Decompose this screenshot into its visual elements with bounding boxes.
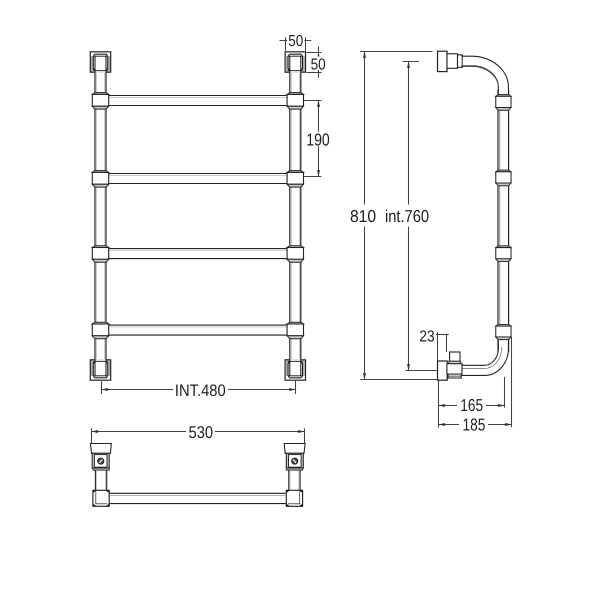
svg-text:165: 165 — [460, 395, 483, 415]
dimension 530 — [92, 423, 305, 444]
dimension 50 vertical (right of top-right bracket) — [307, 47, 328, 78]
collar left bar1 — [92, 93, 108, 110]
collar left bar4 — [92, 322, 108, 339]
side view vertical tube — [498, 90, 509, 352]
right post — [290, 54, 301, 375]
top-left wall bracket — [90, 52, 110, 73]
air valve cap — [450, 352, 460, 361]
svg-text:810: 810 — [350, 206, 376, 226]
dimension 165 — [439, 377, 505, 428]
svg-text:50: 50 — [311, 57, 326, 74]
svg-text:190: 190 — [306, 129, 330, 149]
top-right wall bracket — [285, 52, 305, 73]
svg-text:INT.480: INT.480 — [175, 381, 226, 400]
side view top wall plate — [438, 51, 448, 71]
plan view front tube — [109, 493, 286, 503]
bar 4 — [108, 325, 288, 335]
svg-text:185: 185 — [463, 415, 486, 435]
boss lower band — [448, 374, 461, 378]
left post — [95, 54, 106, 375]
collar right bar1 — [287, 93, 303, 110]
dimension INT.480 — [102, 381, 296, 400]
collar left bar2 — [92, 171, 108, 188]
bar 1 — [107, 96, 288, 106]
bar 2 — [108, 174, 288, 184]
wall plate — [90, 444, 111, 454]
dimension int.760 — [384, 62, 439, 371]
side collar 2 — [496, 170, 511, 186]
bottom wall plate — [438, 361, 448, 380]
dimension 190 — [304, 101, 332, 177]
dimension 50 horizontal (top) — [280, 33, 312, 51]
collar right bar2 — [287, 171, 303, 188]
side view top boss — [447, 54, 458, 69]
plan view left bracket assembly — [90, 444, 111, 507]
side collar 4 — [496, 324, 511, 339]
flange — [93, 468, 109, 470]
dimension 23 — [419, 329, 448, 362]
dimension 810 — [349, 52, 439, 380]
svg-text:23: 23 — [419, 329, 434, 346]
post (toward viewer) — [94, 470, 96, 490]
collar left bar3 — [92, 246, 108, 263]
bracket body — [92, 453, 109, 468]
svg-text:50: 50 — [288, 33, 303, 50]
collar right bar3 — [287, 246, 303, 263]
side collar 1 — [496, 95, 511, 111]
side collar 3 — [496, 246, 511, 262]
valve flange — [449, 361, 461, 363]
collar right bar4 — [287, 322, 303, 339]
dimension 185 — [439, 337, 512, 435]
plan view right bracket assembly — [284, 444, 305, 507]
svg-text:530: 530 — [189, 423, 214, 442]
side view top tube with bend — [461, 55, 504, 97]
elbow — [93, 490, 109, 506]
side view bottom tube with bend — [461, 338, 504, 370]
tube elbow highlight line — [462, 347, 502, 369]
bottom-right wall bracket — [285, 359, 305, 380]
svg-text:int.760: int.760 — [385, 206, 429, 226]
bottom boss — [447, 364, 462, 374]
screw — [98, 458, 104, 464]
bar 3 — [108, 249, 288, 259]
bottom-left wall bracket — [90, 359, 110, 380]
